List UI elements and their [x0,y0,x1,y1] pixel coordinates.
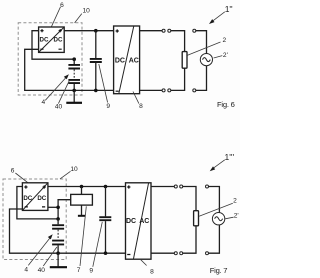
leader 2 [188,42,221,55]
svg-text:Fig. 6: Fig. 6 [217,100,235,109]
AC output wires top [151,186,174,188]
wire to load branch [171,31,185,52]
leader 2 [199,203,233,216]
wire to grid branch [209,225,220,253]
wire DC/DC - right jog [48,206,58,208]
node: stack / bus [56,251,60,255]
svg-text:2: 2 [222,37,226,44]
terminal [206,185,209,188]
svg-text:4: 4 [24,266,28,273]
svg-text:10: 10 [83,7,91,14]
svg-text:1'': 1'' [225,4,233,14]
svg-text:40: 40 [55,103,63,110]
capacitor C40 [52,241,64,254]
dashed series-link between C4 and C40 [57,230,59,240]
svg-text:7: 7 [77,267,81,274]
capacitor C9 [90,31,102,91]
leader 10 [75,14,82,23]
svg-text:2: 2 [233,198,237,205]
ground (below stack) [66,90,82,102]
capacitor C40 [68,80,80,91]
terminal [168,89,171,92]
AC output wires bottom [140,89,163,91]
terminal [206,252,209,255]
leader 10 [60,171,71,179]
leader 4 (arrow to stack) [28,234,52,265]
terminal [180,185,183,188]
svg-text:8: 8 [150,268,154,275]
terminal [193,89,196,92]
AC output wires bottom [151,252,174,254]
node: rail / control unit stem [80,185,84,189]
terminal [168,29,171,32]
leader 9 [99,64,108,103]
terminal [180,252,183,255]
ground (below stack) [50,253,67,267]
top rail [48,186,126,188]
svg-text:8: 8 [139,103,143,110]
DC/DC converter 6 [39,27,65,52]
node: top rail / C9 [94,29,98,33]
capacitor C9 [99,187,111,254]
wire to load branch [171,68,185,90]
load resistor 2 [182,52,187,69]
dashed enclosure 10 [3,179,66,260]
svg-text:40: 40 [38,267,46,274]
node: rail / C9 [104,185,108,189]
svg-text:AC: AC [129,57,139,64]
terminal [174,185,177,188]
wire B (DC/DC - left loop to bottom bus) [10,209,126,253]
load resistor 2 [194,211,199,226]
DC/AC inverter 8 [126,183,152,259]
svg-text:DC: DC [126,218,136,225]
svg-text:AC: AC [139,218,149,225]
DC/DC converter 6 [22,183,48,211]
wire to grid branch [196,31,207,54]
wire jog down to stack [57,207,59,219]
leader 6 [15,173,32,186]
svg-text:1''': 1''' [224,152,234,162]
wire to grid branch [196,66,207,91]
svg-text:DC: DC [37,195,46,202]
terminal [193,29,196,32]
terminal [174,252,177,255]
leader 8 [133,92,139,104]
leader 2' [225,217,233,219]
wire A (DC/DC + to capacitor stack top) [32,31,74,60]
AC output wires top [140,30,163,32]
wire to grid branch [209,187,220,213]
svg-text:DC: DC [115,57,125,64]
wire to load branch [183,187,196,211]
svg-text:6: 6 [11,168,15,175]
leader 40 [58,81,69,104]
leader 6 [50,7,61,30]
terminal [162,29,165,32]
node: jog junction [56,206,60,210]
node: capacitor stack / bus junction [72,89,76,93]
svg-text:DC: DC [40,37,49,44]
dashed series-link between C4 and C40 [73,69,75,79]
dashed enclosure 10 [18,23,82,95]
leader 4 (arrow to stack) [45,74,69,100]
control unit 7 [71,187,93,206]
wire jog to control unit 7 [58,200,71,208]
svg-text:Fig. 7: Fig. 7 [210,266,228,275]
capacitor C4 [68,59,80,68]
svg-text:9: 9 [89,267,93,274]
node: C9 / bus [104,251,108,255]
svg-text:6: 6 [60,2,64,9]
svg-text:10: 10 [70,166,78,173]
node: wire A / capacitor stack junction [72,57,76,61]
AC grid source 2' [200,54,212,66]
capacitor C4 [52,219,64,229]
leader 8 [140,259,146,265]
AC grid source 2' [212,213,224,225]
leader 9 [93,222,103,267]
arrow 1''' [210,152,235,171]
svg-text:4: 4 [41,99,45,106]
svg-text:2': 2' [234,213,239,220]
DC/AC inverter 8 [114,26,140,94]
node: wire A / stack top [56,217,60,221]
leader 40 [43,247,57,266]
node: C9 / bus [94,89,98,93]
svg-text:2': 2' [223,52,228,59]
top rail [64,30,113,32]
wire to load branch [183,226,196,253]
arrow 1'' [209,4,233,24]
leader 2' [214,56,223,58]
svg-text:9: 9 [106,103,110,110]
svg-text:DC: DC [54,37,63,44]
ground (below unit 7) [78,205,85,216]
wire A (DC/DC + left loop to capacitor stack top) [17,187,58,219]
leader 7 [80,206,86,266]
svg-text:DC: DC [23,195,32,202]
terminal [162,89,165,92]
wire B (DC/DC - left loop to bottom bus) [25,49,114,90]
